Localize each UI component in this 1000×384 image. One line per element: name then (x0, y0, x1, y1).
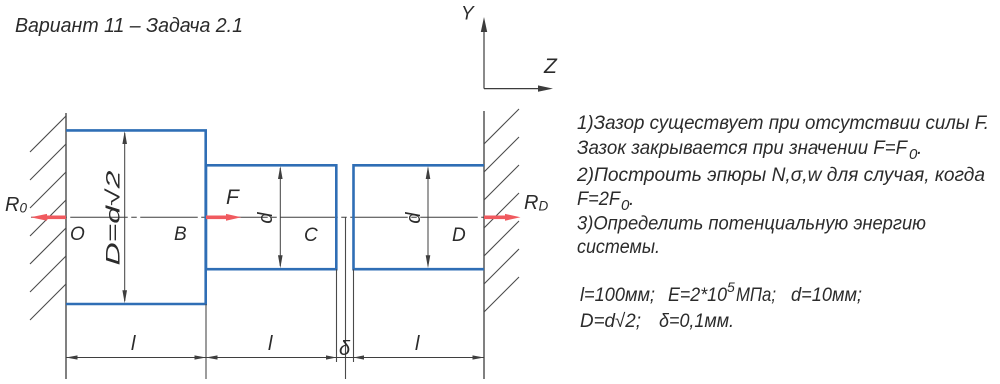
svg-text:.: . (917, 138, 922, 159)
svg-text:2)Построить эпюры N,σ,w для сл: 2)Построить эпюры N,σ,w для случая, когд… (576, 165, 985, 186)
svg-text:l: l (131, 333, 136, 355)
svg-text:Z: Z (543, 55, 558, 78)
hatching right wall (484, 109, 519, 312)
svg-text:D=d√2: D=d√2 (104, 170, 125, 266)
svg-text:.: . (629, 189, 634, 210)
svg-text:l: l (415, 333, 420, 355)
extension line gap left (336, 269, 338, 362)
bar CD rectangle (354, 165, 485, 269)
svg-text:1)Зазор существует при отсутст: 1)Зазор существует при отсутствии силы F… (577, 113, 989, 134)
force RD arrow (484, 214, 521, 221)
problem text block (576, 113, 989, 258)
svg-text:RD: RD (524, 192, 548, 214)
force R0 arrow (31, 214, 67, 221)
svg-text:d=10мм;: d=10мм; (791, 285, 862, 306)
svg-text:Зазок закрывается при значении: Зазок закрывается при значении F=F (577, 138, 908, 159)
data text block (580, 279, 862, 332)
svg-text:F: F (226, 186, 240, 209)
svg-text:l: l (268, 333, 273, 355)
bottom dim arrows (66, 355, 484, 359)
svg-text:B: B (174, 224, 187, 245)
svg-text:системы.: системы. (577, 237, 660, 258)
svg-text:5: 5 (727, 279, 735, 295)
axis Z (484, 85, 553, 91)
svg-text:D: D (452, 225, 466, 246)
dimension d middle (278, 166, 283, 268)
svg-text:l=100мм;: l=100мм; (580, 285, 655, 306)
axis Y (481, 17, 487, 89)
svg-text:Y: Y (461, 4, 475, 25)
centerline (31, 216, 484, 218)
extension line gap right (353, 269, 355, 362)
svg-text:МПа;: МПа; (736, 285, 776, 306)
svg-text:3)Определить потенциальную эне: 3)Определить потенциальную энергию (577, 214, 926, 235)
svg-text:δ: δ (339, 338, 351, 360)
wall left (65, 113, 67, 379)
svg-text:Вариант 11 – Задача 2.1: Вариант 11 – Задача 2.1 (15, 15, 243, 37)
bar OB rectangle (66, 130, 206, 304)
svg-text:d: d (403, 212, 425, 224)
svg-text:D=d√2;: D=d√2; (580, 311, 641, 332)
svg-text:δ=0,1мм.: δ=0,1мм. (659, 311, 734, 332)
svg-text:O: O (70, 224, 85, 245)
force F arrow (206, 214, 241, 221)
svg-text:d: d (255, 212, 277, 224)
bar BC rectangle (206, 165, 336, 269)
svg-text:C: C (304, 225, 318, 246)
dimension d right (426, 166, 431, 268)
hatching left wall (30, 116, 66, 320)
svg-text:R0: R0 (5, 194, 27, 216)
svg-text:F=2F: F=2F (577, 189, 621, 210)
gap center line (345, 217, 347, 379)
dimension line bottom (66, 357, 484, 359)
svg-text:E=2*10: E=2*10 (668, 285, 727, 306)
wall right (483, 111, 485, 379)
extension line at B (205, 304, 207, 379)
dimension D=d√2 (122, 131, 127, 303)
